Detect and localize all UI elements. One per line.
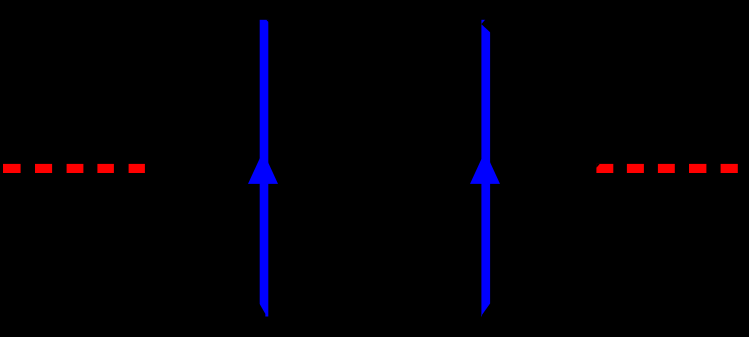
arrow B2 head (blue triangle pointing up) bbox=[470, 151, 500, 184]
wire nick at top-right corner of arrow B1 shaft bbox=[266, 20, 268, 22]
wire nick at top-left corner of first right dash bbox=[596, 164, 599, 168]
wire crossing arrow B1 near bottom (black rail over blue shaft) bbox=[260, 304, 266, 318]
arrow B1 shaft (blue, vertical) bbox=[260, 20, 269, 317]
dashed axis line, left segment (red) bbox=[3, 164, 145, 173]
dashed axis line, right segment (red) bbox=[596, 164, 737, 173]
arrow B2 shaft (blue, vertical) bbox=[481, 20, 490, 317]
arrow B1 head (blue triangle pointing up) bbox=[248, 151, 278, 184]
wire corner crossing arrow B2 near top (black rail vertex over blue shaft) bbox=[481, 19, 497, 39]
wire crossing arrow B2 near bottom (black rail over blue shaft) bbox=[482, 304, 497, 319]
